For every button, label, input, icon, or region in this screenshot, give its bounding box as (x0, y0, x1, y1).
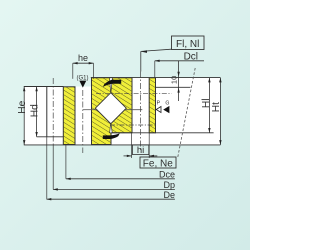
Fl, Nl label box (141, 36, 204, 72)
ring split line right (124, 109, 142, 111)
bottom split slit (110, 124, 113, 133)
right ring bottom face (111, 132, 214, 134)
svg-text:hi: hi (137, 145, 144, 156)
ring split line left (83, 109, 98, 111)
svg-text:De: De (163, 190, 175, 200)
raceway arrow bottom (103, 133, 120, 139)
svg-text:Ht: Ht (211, 102, 222, 112)
hi dimension (124, 133, 158, 158)
left hole centerline (52, 78, 54, 145)
left outer bottom face (Hd) (37, 136, 64, 138)
G1 label (77, 75, 89, 87)
svg-text:He: He (17, 100, 28, 113)
roller (diamond) (95, 93, 126, 124)
svg-text:G: G (165, 100, 169, 106)
svg-text:Dce: Dce (159, 169, 175, 179)
svg-text:he: he (78, 53, 88, 63)
outer ring left strip (hatched) (63, 87, 75, 145)
P marker (156, 100, 161, 112)
ring top extension line (91, 77, 221, 79)
Dcl dimension (155, 51, 204, 77)
right ring strip (hatched) (149, 78, 155, 133)
alternate roller dashed line top (96, 93, 172, 95)
right hole centerline (140, 72, 142, 153)
10 dimension (169, 61, 180, 101)
left outer edge (46, 87, 48, 137)
main bottom face line (24, 144, 221, 146)
left top face line (24, 86, 64, 88)
white drawing zone (24, 78, 220, 145)
gear flank dashed diagonal (178, 68, 196, 158)
main ring block (hatched) (92, 78, 133, 145)
svg-text:10: 10 (169, 76, 178, 84)
svg-text:P: P (157, 100, 161, 106)
Dp dimension (53, 145, 175, 191)
gear top face line (156, 86, 191, 88)
svg-text:(G1): (G1) (77, 75, 89, 81)
top split slit (110, 78, 113, 93)
alternate roller dashed line bottom (110, 124, 156, 126)
Dce dimension (66, 145, 175, 180)
Ht dimension (211, 78, 222, 145)
svg-text:Fl, Nl: Fl, Nl (176, 39, 199, 50)
svg-text:Fe, Ne: Fe, Ne (143, 159, 173, 170)
svg-text:Hd: Hd (29, 104, 40, 117)
Fe, Ne label box (140, 157, 176, 170)
raceway arrow top (103, 80, 121, 87)
He dimension (17, 87, 28, 145)
G marker (163, 100, 169, 113)
Hl dimension (201, 78, 212, 133)
De dimension (47, 137, 176, 201)
he dimension (73, 53, 94, 79)
svg-text:Dp: Dp (163, 180, 175, 190)
left channel centerline (82, 90, 84, 153)
Hd dimension (29, 87, 40, 137)
